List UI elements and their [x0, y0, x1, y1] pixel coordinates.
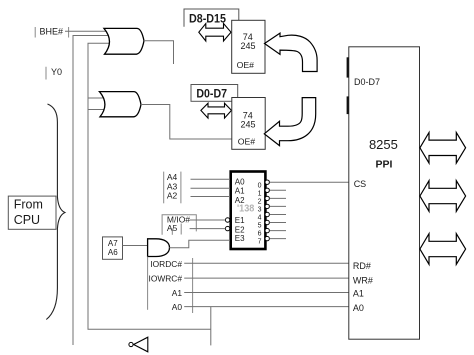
buffer U1 74245 (high byte) [232, 20, 265, 73]
node D8-D15 label box [184, 9, 239, 27]
svg-text:BHE#: BHE# [40, 27, 64, 37]
wire A0 branch down [210, 307, 212, 346]
chip U4 8255 PPI [349, 47, 420, 339]
node A4 A3 A2 labels [164, 172, 181, 204]
wire A5 to U3.E2 [190, 228, 226, 230]
svg-text:A1: A1 [235, 187, 245, 196]
svg-text:'138: '138 [237, 204, 255, 215]
svg-text:WR#: WR# [353, 275, 373, 285]
node From CPU box [8, 196, 56, 229]
svg-text:4: 4 [258, 215, 262, 222]
svg-text:E3: E3 [235, 234, 245, 243]
svg-text:8255: 8255 [369, 137, 398, 152]
svg-text:A0: A0 [172, 302, 183, 312]
svg-text:A6: A6 [108, 248, 118, 257]
wire outputs 1-7 stubs [270, 190, 287, 238]
wire A1 to 8255 A1 [184, 292, 349, 294]
arrow curved swoosh to U2 [264, 98, 315, 146]
svg-text:E2: E2 [235, 225, 245, 234]
svg-text:IORDC#: IORDC# [150, 259, 182, 269]
svg-text:CPU: CPU [14, 213, 40, 227]
wire A4 to U3.A0 [191, 178, 231, 180]
node A7 A6 label box [103, 237, 123, 259]
wire G3 output to U3.E3 [169, 240, 230, 248]
wire A3 to U3.A1 [191, 187, 231, 189]
svg-text:0: 0 [258, 182, 262, 189]
and-gate G3 [148, 239, 170, 257]
svg-text:E1: E1 [235, 216, 245, 225]
node IORDC# IOWRC# A1 A0 labels [149, 258, 193, 313]
svg-text:1: 1 [258, 190, 262, 197]
wire IORDC# to 8255 RD# [184, 262, 349, 264]
wire G2 output to 74245 #2 OE# [141, 105, 232, 140]
or-gate G1 [104, 28, 144, 54]
svg-text:D0-D7: D0-D7 [354, 77, 380, 87]
decoder U3 74138 [231, 172, 266, 250]
svg-text:IOWRC#: IOWRC# [149, 274, 183, 284]
wire D0-D7 double arrow [201, 103, 232, 118]
wire M/IO# to U3.E1 [190, 219, 226, 221]
node Y0 label [46, 67, 62, 80]
node M/IO# A5 labels [162, 214, 196, 235]
svg-text:A1: A1 [353, 289, 364, 299]
wire A0 to 8255 A0 [184, 306, 349, 308]
pin bubble E1 [225, 218, 229, 222]
or-gate G2 [99, 92, 141, 117]
wire A2 to U3.A2 [191, 196, 231, 198]
wire D8-D15 double arrow [199, 24, 231, 42]
arrow curved swoosh to U1 [265, 33, 318, 71]
svg-text:A5: A5 [167, 223, 178, 233]
svg-text:A2: A2 [167, 191, 178, 201]
wire BHE# to OR gate G1 [65, 30, 108, 32]
arrow port A double arrow [420, 133, 466, 164]
svg-text:OE#: OE# [238, 137, 256, 147]
svg-text:2: 2 [258, 199, 262, 206]
wire tick line below AND gate [147, 257, 149, 310]
arrow port B double arrow [420, 181, 466, 212]
wire IOWRC# to 8255 WR# [184, 277, 349, 279]
wire stub bus2 to G2 input A [88, 97, 103, 99]
brace from CPU (large right brace) [46, 104, 65, 320]
node D0-D7 label box [191, 85, 238, 102]
svg-text:OE#: OE# [237, 60, 255, 70]
wire G1 output (dangling) [144, 41, 174, 64]
svg-text:245: 245 [240, 119, 255, 129]
inverter G4 [129, 337, 148, 352]
svg-text:5: 5 [258, 223, 262, 230]
svg-text:CS: CS [354, 179, 367, 189]
svg-text:D0-D7: D0-D7 [196, 87, 227, 101]
svg-text:D8-D15: D8-D15 [189, 11, 226, 25]
svg-text:3: 3 [258, 207, 262, 214]
bus bar upper on 8255 [347, 57, 349, 77]
svg-text:245: 245 [240, 41, 255, 51]
wire A7/A6 to AND gate [123, 245, 148, 247]
arrow port C double arrow [420, 234, 466, 265]
svg-text:7: 7 [258, 239, 262, 246]
pin bubble E2 [225, 226, 229, 230]
wire vertical bus 1 (from CPU, x=73) [73, 36, 108, 346]
svg-text:From: From [14, 198, 43, 212]
node BHE# label [35, 27, 68, 38]
svg-text:A4: A4 [167, 172, 178, 182]
svg-text:A7: A7 [108, 239, 118, 248]
svg-text:RD#: RD# [353, 261, 371, 271]
pin bubbles outputs 0-7 [265, 180, 269, 241]
svg-text:A0: A0 [235, 177, 245, 186]
svg-text:Y0: Y0 [51, 67, 62, 77]
bus bar lower on 8255 [347, 96, 349, 114]
wire stub bus2 to G2 input B [88, 109, 104, 111]
svg-text:6: 6 [258, 231, 262, 238]
wire Y0 output 0 to 8255 CS [270, 181, 349, 183]
svg-text:PPI: PPI [376, 159, 393, 171]
svg-text:A0: A0 [353, 303, 364, 313]
svg-text:A1: A1 [172, 288, 183, 298]
wire vertical bus 2 (from CPU, x=88) [88, 43, 211, 329]
buffer U2 74245 (low byte) [232, 98, 265, 150]
